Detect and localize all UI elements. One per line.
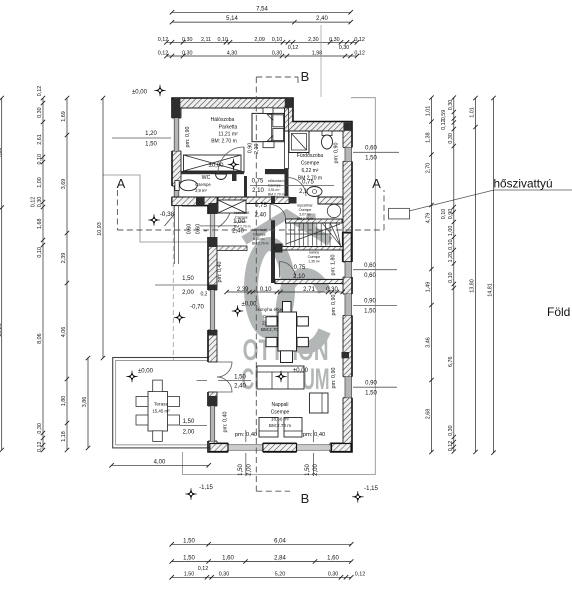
svg-text:-1,15: -1,15: [364, 486, 378, 492]
svg-text:0,10: 0,10: [260, 287, 272, 293]
svg-text:0,30: 0,30: [182, 37, 193, 43]
west door entrance (at -0.38): [171, 206, 182, 232]
svg-text:2,40: 2,40: [316, 16, 328, 22]
window label lines right: [346, 151, 399, 153]
exterior walls hatched: [172, 98, 352, 452]
svg-text:1,20: 1,20: [448, 252, 454, 263]
svg-text:0,30: 0,30: [37, 423, 43, 434]
svg-text:B: B: [301, 491, 310, 506]
svg-text:0,10: 0,10: [448, 272, 454, 283]
svg-text:1,18: 1,18: [61, 431, 67, 442]
svg-text:1,00: 1,00: [448, 226, 454, 237]
bed: [252, 113, 284, 141]
reference label frame right/bottom: [183, 98, 376, 475]
svg-text:BM 2.70 m: BM 2.70 m: [297, 217, 314, 221]
svg-text:2,40: 2,40: [232, 229, 244, 235]
terrace chairs: [136, 397, 148, 407]
top dim small row: [166, 41, 357, 43]
svg-text:4,00: 4,00: [154, 459, 166, 465]
svg-text:-0,38: -0,38: [160, 211, 175, 218]
section line B-B: [256, 77, 298, 491]
svg-text:4,55: 4,55: [0, 148, 3, 159]
wall east of wc: [232, 170, 237, 181]
svg-text:2,68: 2,68: [426, 409, 432, 420]
left chain rooms: [66, 98, 68, 450]
level star bedroom: [228, 164, 239, 166]
svg-text:pm: 0,40: pm: 0,40: [217, 262, 223, 283]
svg-text:1,50: 1,50: [305, 464, 311, 476]
svg-text:1,60: 1,60: [222, 556, 234, 562]
svg-text:kamra: kamra: [309, 251, 319, 255]
terrace table: [148, 392, 168, 432]
level -0.38: [148, 219, 159, 221]
windows east wall: [342, 262, 353, 277]
svg-text:7,54: 7,54: [256, 6, 268, 12]
level -1.15 right: [352, 496, 363, 498]
svg-text:1,38: 1,38: [426, 132, 432, 143]
svg-text:1,50: 1,50: [182, 276, 194, 282]
svg-text:1,50: 1,50: [364, 309, 376, 315]
svg-text:1,69: 1,69: [61, 111, 67, 122]
svg-text:0,30: 0,30: [329, 37, 340, 43]
armchairs bottom: [259, 418, 278, 438]
svg-text:1,50: 1,50: [184, 571, 195, 577]
bathroom toilet: [322, 131, 332, 136]
svg-text:4,06: 4,06: [61, 327, 67, 338]
svg-text:0,12: 0,12: [158, 51, 169, 57]
svg-text:Föld: Föld: [547, 305, 570, 319]
svg-text:0,12: 0,12: [31, 197, 37, 208]
svg-text:±0,00: ±0,00: [209, 163, 225, 169]
svg-text:6,76: 6,76: [448, 357, 454, 368]
svg-text:4,79: 4,79: [426, 213, 432, 224]
kitchen table: [278, 312, 297, 351]
terrace french door opening: [207, 362, 218, 392]
svg-text:1,01: 1,01: [470, 107, 476, 118]
svg-text:0,10: 0,10: [441, 209, 447, 220]
svg-text:Fürdőszoba: Fürdőszoba: [297, 153, 324, 159]
svg-text:A: A: [117, 176, 126, 191]
svg-text:pm: 0,40: pm: 0,40: [235, 432, 258, 438]
level -0.70: [174, 317, 185, 319]
svg-text:Hálószoba: Hálószoba: [211, 117, 235, 123]
upper hall room wall: [286, 219, 343, 223]
terrace outline: [113, 358, 208, 448]
svg-text:14,81: 14,81: [488, 283, 494, 297]
svg-text:0,75: 0,75: [255, 203, 267, 209]
svg-text:5,14: 5,14: [226, 16, 238, 22]
wc sink: [216, 174, 227, 180]
svg-text:0,59: 0,59: [441, 110, 447, 121]
level star living: [275, 376, 286, 378]
watermark Otthon Centrum logo: [244, 214, 330, 348]
svg-text:Csempe: Csempe: [271, 410, 290, 416]
svg-text:±0,00: ±0,00: [138, 369, 154, 375]
svg-text:1,68: 1,68: [37, 218, 43, 229]
svg-text:2,00: 2,00: [183, 430, 195, 436]
heat pump leader and label: [409, 190, 494, 211]
svg-text:2,10: 2,10: [293, 274, 305, 280]
svg-text:A: A: [372, 176, 381, 191]
svg-text:1,50: 1,50: [238, 464, 244, 476]
svg-text:2,00: 2,00: [182, 290, 194, 296]
armchair right: [310, 393, 329, 413]
bottom dim row 3: [172, 576, 352, 578]
wc toilet: [175, 181, 179, 191]
svg-text:2,71: 2,71: [303, 287, 315, 293]
svg-text:6,04: 6,04: [274, 538, 286, 544]
svg-text:0,75: 0,75: [252, 179, 264, 185]
west wall dark pier: [208, 396, 217, 406]
left chain small: [42, 98, 44, 450]
svg-text:3,91 m²: 3,91 m²: [268, 188, 280, 192]
bathroom door: [287, 178, 289, 197]
svg-text:10,26: 10,26: [0, 323, 3, 337]
svg-text:BM: 2.70 m: BM: 2.70 m: [211, 139, 237, 145]
level star kitchen: [232, 310, 243, 312]
bottom dim row 2: [172, 561, 352, 563]
right chain small: [453, 98, 455, 452]
window bedroom west: [171, 118, 182, 151]
sofa: [257, 366, 304, 389]
svg-text:0,90: 0,90: [364, 299, 376, 305]
svg-text:pm: 0,90: pm: 0,90: [331, 368, 337, 389]
svg-text:10,93: 10,93: [97, 222, 103, 236]
svg-text:0,60: 0,60: [364, 273, 376, 279]
svg-text:13,80: 13,80: [470, 279, 476, 293]
svg-text:Csempe: Csempe: [235, 216, 248, 220]
svg-text:2,61: 2,61: [37, 134, 43, 145]
interior wall hall/wc band: [172, 197, 204, 206]
left chain 3,86: [87, 358, 89, 448]
svg-text:3,86: 3,86: [82, 397, 88, 408]
svg-text:0,75: 0,75: [294, 265, 306, 271]
stair circle column: [327, 204, 340, 217]
right chain 14,81: [493, 98, 495, 453]
svg-text:Csempe: Csempe: [301, 161, 320, 167]
bottom wall windows (low parapet): [228, 442, 263, 453]
svg-text:2,40: 2,40: [234, 384, 246, 390]
window label lines left: [112, 137, 182, 139]
svg-text:±0,00: ±0,00: [132, 90, 148, 96]
bottom window extension lines: [245, 430, 247, 476]
svg-text:Csempe: Csempe: [308, 255, 321, 259]
svg-text:5,04 m²: 5,04 m²: [253, 237, 265, 241]
svg-text:1,00: 1,00: [37, 177, 43, 188]
svg-text:pm: 0,40: pm: 0,40: [223, 412, 229, 433]
svg-text:0,10: 0,10: [37, 247, 43, 258]
svg-text:0,30: 0,30: [182, 51, 193, 57]
svg-text:BM 2.70 m: BM 2.70 m: [268, 193, 285, 197]
svg-text:BM:2.70 m: BM:2.70 m: [269, 423, 291, 428]
svg-text:2,00: 2,00: [247, 464, 253, 476]
left chain 10,93: [102, 98, 104, 358]
level +-0,00 top: [154, 90, 165, 92]
svg-text:2,39: 2,39: [61, 253, 67, 264]
svg-text:3,46: 3,46: [426, 337, 432, 348]
hall/stairs wall: [271, 196, 275, 204]
right chain rooms: [431, 98, 433, 452]
svg-text:-1,15: -1,15: [199, 485, 213, 491]
svg-text:3,69: 3,69: [61, 179, 67, 190]
top dim total 7,54: [172, 11, 351, 13]
heat pump unit: [389, 208, 410, 219]
stairs treads: [286, 223, 341, 246]
svg-text:2,11: 2,11: [201, 37, 211, 43]
svg-text:Csempe: Csempe: [268, 184, 281, 188]
svg-text:0,60: 0,60: [365, 146, 377, 152]
svg-text:6,22 m²: 6,22 m²: [302, 168, 319, 174]
svg-text:1,50: 1,50: [145, 142, 157, 148]
svg-text:0,10: 0,10: [37, 154, 43, 165]
hall labels: [200, 225, 236, 227]
svg-text:hőszivattyú: hőszivattyú: [494, 177, 553, 191]
svg-text:lépcsőház: lépcsőház: [297, 204, 313, 208]
svg-text:Parketta: Parketta: [219, 125, 238, 131]
svg-text:0,60: 0,60: [196, 224, 202, 235]
svg-text:BM 2.70 m: BM 2.70 m: [298, 176, 322, 182]
svg-text:közlekedő: közlekedő: [234, 211, 249, 215]
top dim row 4: [166, 55, 357, 57]
shower: [289, 131, 309, 153]
svg-text:0,90: 0,90: [448, 209, 454, 220]
svg-text:2,84: 2,84: [274, 556, 286, 562]
svg-text:0,30: 0,30: [326, 287, 338, 293]
svg-text:1,50: 1,50: [183, 556, 195, 562]
section line A-A: [117, 190, 384, 230]
svg-text:Terasz: Terasz: [154, 402, 169, 408]
svg-text:0,12: 0,12: [355, 571, 366, 577]
top dim 5,14 / 2,40: [172, 21, 351, 23]
terrace door label line: [197, 380, 252, 382]
counter shelf: [217, 246, 247, 251]
svg-text:0,90: 0,90: [365, 381, 377, 387]
svg-text:0,30: 0,30: [448, 100, 454, 111]
svg-text:0,12: 0,12: [288, 45, 299, 51]
svg-text:0,30: 0,30: [37, 197, 43, 208]
svg-text:5,04 m²: 5,04 m²: [235, 220, 247, 224]
svg-text:0,90: 0,90: [248, 143, 254, 154]
svg-text:1,50: 1,50: [234, 375, 246, 381]
svg-text:±0,00: ±0,00: [242, 302, 258, 308]
svg-text:pm: 0,90: pm: 0,90: [334, 143, 340, 164]
svg-text:B: B: [301, 69, 310, 84]
svg-text:1,01: 1,01: [426, 106, 432, 117]
svg-text:3,07 m²: 3,07 m²: [299, 213, 311, 217]
svg-text:0,10: 0,10: [272, 37, 283, 43]
svg-text:1,50: 1,50: [183, 419, 195, 425]
svg-text:11,21 m²: 11,21 m²: [218, 132, 238, 138]
svg-text:0,12: 0,12: [158, 37, 169, 43]
svg-text:pm: 1,80: pm: 1,80: [331, 255, 337, 276]
svg-text:BM:2,70 m: BM:2,70 m: [252, 242, 269, 246]
svg-text:1,50: 1,50: [365, 391, 377, 397]
svg-text:2,9 m²: 2,9 m²: [195, 188, 207, 193]
svg-text:2,09: 2,09: [254, 37, 265, 43]
svg-text:1,50: 1,50: [365, 156, 377, 162]
svg-text:0,12: 0,12: [354, 51, 365, 57]
svg-text:0,30: 0,30: [448, 133, 454, 144]
dark corner blocks: [173, 99, 181, 118]
svg-text:Csempe: Csempe: [299, 208, 312, 212]
svg-text:5,20: 5,20: [275, 571, 286, 577]
svg-text:pm: 0,90: pm: 0,90: [185, 127, 191, 148]
terrace width dim 4,00: [112, 464, 209, 466]
svg-text:2,00: 2,00: [313, 464, 319, 476]
svg-text:Csempe: Csempe: [195, 182, 211, 187]
svg-text:Csempe: Csempe: [253, 233, 266, 237]
svg-text:0,12: 0,12: [448, 441, 454, 452]
bottom dim row 1: [172, 543, 352, 545]
svg-text:18,66 m²: 18,66 m²: [271, 417, 290, 422]
kamra door arc: [280, 262, 296, 278]
svg-text:-0,70: -0,70: [190, 305, 204, 311]
level star terrace: [126, 376, 137, 378]
svg-text:2,10: 2,10: [254, 143, 260, 154]
svg-text:15,45 m²: 15,45 m²: [152, 409, 170, 414]
svg-text:1,35 m²: 1,35 m²: [308, 260, 320, 264]
hall cabinet with X: [218, 200, 246, 213]
svg-text:1,60: 1,60: [327, 556, 339, 562]
bottom wall piers: [210, 444, 228, 452]
roof overhang dashed: [172, 206, 174, 360]
window bathroom east: [342, 147, 353, 161]
svg-text:0,30: 0,30: [339, 45, 350, 51]
svg-text:pm: 0,40: pm: 0,40: [303, 432, 326, 438]
svg-text:BM:2,70 m: BM:2,70 m: [234, 225, 251, 229]
level -1.15 left: [185, 493, 196, 495]
svg-text:0,60: 0,60: [187, 224, 193, 235]
window wc west: [171, 186, 182, 197]
entry door arc: [204, 204, 232, 232]
bathroom south wall: [289, 197, 297, 204]
svg-text:1,80: 1,80: [61, 396, 67, 407]
svg-text:0,10: 0,10: [217, 37, 228, 43]
svg-text:1,20: 1,20: [145, 131, 157, 137]
interior wall bedroom south: [181, 171, 244, 174]
svg-text:0,60: 0,60: [364, 263, 376, 269]
svg-text:0,10: 0,10: [448, 239, 454, 250]
svg-text:2,70: 2,70: [426, 163, 432, 174]
svg-text:2,39: 2,39: [237, 287, 249, 293]
svg-text:0,30: 0,30: [219, 571, 230, 577]
svg-text:pm: 0,90: pm: 0,90: [331, 295, 337, 316]
svg-text:8,06: 8,06: [37, 333, 43, 344]
svg-text:2,10: 2,10: [252, 188, 264, 194]
windows west lower wall: [207, 290, 218, 330]
svg-text:0,30: 0,30: [448, 425, 454, 436]
svg-text:0,12: 0,12: [441, 119, 447, 130]
svg-text:±0,00: ±0,00: [293, 368, 309, 374]
right chain 13,80: [475, 98, 477, 452]
svg-text:4,30: 4,30: [227, 51, 238, 57]
svg-text:Nappali: Nappali: [272, 402, 289, 408]
svg-text:0,12: 0,12: [198, 566, 209, 572]
svg-text:1,49: 1,49: [426, 282, 432, 293]
bathroom basin: [307, 187, 322, 197]
svg-text:0,12: 0,12: [37, 441, 43, 452]
svg-text:0,30: 0,30: [272, 51, 283, 57]
svg-text:WC: WC: [202, 175, 211, 181]
stairs lower wall: [275, 247, 344, 251]
bedroom door arc: [243, 147, 245, 173]
kitchen bottom chair: [281, 351, 293, 363]
reference outline upper-left canopy: [103, 175, 208, 242]
top extension line: [320, 25, 322, 97]
svg-text:0,30: 0,30: [37, 107, 43, 118]
svg-text:2,30: 2,30: [308, 37, 319, 43]
svg-text:0,30: 0,30: [328, 571, 339, 577]
west glazed section: [207, 214, 218, 237]
upper hall door leaf and arc: [269, 205, 271, 221]
svg-text:1,50: 1,50: [183, 538, 195, 544]
kamra south wall: [275, 279, 343, 283]
wardrobe with X: [184, 155, 242, 171]
bedroom/bath west wall: [285, 108, 289, 169]
left chain total: [1, 98, 3, 450]
interior dim row: [227, 291, 343, 293]
svg-text:0,12: 0,12: [354, 37, 365, 43]
svg-text:előszoba h.: előszoba h.: [268, 179, 285, 183]
svg-text:0,12: 0,12: [37, 86, 43, 97]
